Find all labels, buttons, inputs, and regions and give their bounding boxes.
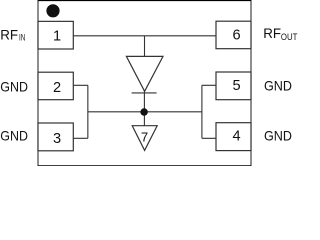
svg-text:GND: GND [0, 78, 28, 94]
svg-text:RF: RF [263, 25, 281, 41]
svg-text:GND: GND [0, 128, 28, 144]
svg-text:1: 1 [53, 28, 61, 44]
svg-text:3: 3 [53, 131, 61, 147]
svg-text:RF: RF [0, 26, 18, 42]
svg-text:GND: GND [264, 77, 292, 93]
svg-text:4: 4 [233, 129, 241, 145]
svg-text:7: 7 [141, 130, 148, 145]
svg-text:IN: IN [19, 33, 25, 44]
svg-text:5: 5 [233, 78, 241, 94]
svg-text:OUT: OUT [281, 32, 298, 43]
svg-text:GND: GND [264, 128, 292, 144]
svg-text:6: 6 [233, 28, 241, 44]
svg-text:2: 2 [53, 80, 61, 96]
